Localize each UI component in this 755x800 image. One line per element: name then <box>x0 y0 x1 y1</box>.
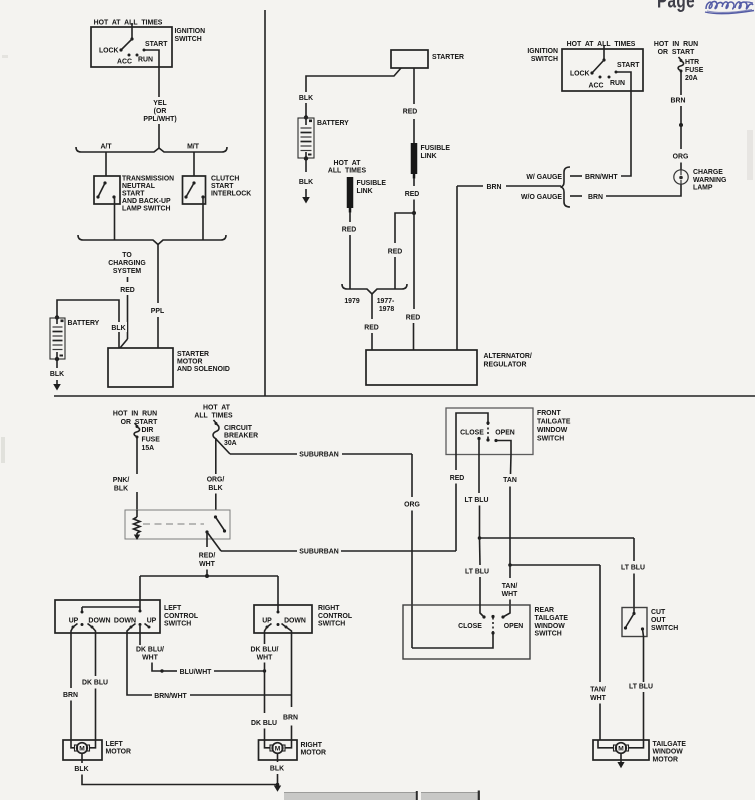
svg-text:TAN/: TAN/ <box>590 687 606 694</box>
wire YEL from start terminal <box>143 50 176 148</box>
svg-text:HTR: HTR <box>685 59 699 66</box>
svg-text:WINDOW: WINDOW <box>537 427 568 434</box>
svg-text:STARTER: STARTER <box>432 54 464 61</box>
wire DK BLU/WHT right switch UP to bus and motor <box>251 627 279 740</box>
svg-text:DK BLU: DK BLU <box>82 680 108 687</box>
faint scan smudges <box>1 55 753 463</box>
starter motor and solenoid box <box>108 348 173 387</box>
svg-text:ACC: ACC <box>589 83 604 90</box>
relay switch contacts <box>205 515 226 533</box>
clutch start interlock switch <box>183 176 206 204</box>
wire RED/WHT relay output to control switches <box>199 532 216 576</box>
label TRANSMISSION NEUTRAL START AND BACK-UP LAMP SWITCH <box>122 176 174 213</box>
wire PPL to starter solenoid <box>151 245 164 349</box>
fusible link F2 <box>350 177 386 213</box>
right control switch <box>254 605 312 633</box>
svg-text:SUBURBAN: SUBURBAN <box>299 452 338 459</box>
svg-text:WHT: WHT <box>502 591 518 598</box>
svg-text:DK BLU/: DK BLU/ <box>251 647 279 654</box>
wire RED bracket stem to alternator <box>364 294 379 350</box>
svg-text:SWITCH: SWITCH <box>175 36 202 43</box>
tailgate window motor M3 <box>593 740 649 760</box>
label CUT OUT SWITCH <box>651 609 678 632</box>
svg-text:MOTOR: MOTOR <box>177 359 203 366</box>
ground (tailgate motor) <box>617 754 624 769</box>
label TAILGATE WINDOW MOTOR <box>653 741 687 764</box>
wire RED lower suburban to front switch <box>450 455 465 552</box>
svg-text:BLK: BLK <box>111 325 125 332</box>
svg-text:ORG: ORG <box>673 154 689 161</box>
wire RED main to alternator <box>406 213 421 350</box>
svg-text:1977-: 1977- <box>377 298 395 305</box>
ignition switch S1 (left) <box>91 27 172 67</box>
right motor M2 <box>259 740 298 760</box>
fuse HTR 20A <box>678 57 704 82</box>
svg-text:OPEN: OPEN <box>495 430 515 437</box>
svg-text:HOT AT ALL TIMES: HOT AT ALL TIMES <box>94 20 163 27</box>
label IGNITION SWITCH (right) <box>527 48 558 63</box>
node HOT AT ALL TIMES (fusible link feed) <box>328 160 367 175</box>
wire BLK left motor ground <box>74 754 277 785</box>
wire TAN front switch open <box>503 455 517 567</box>
svg-text:RED: RED <box>405 191 420 198</box>
svg-text:BRN/WHT: BRN/WHT <box>154 693 187 700</box>
svg-text:FRONT: FRONT <box>537 410 562 417</box>
wire from transmission switch down <box>114 197 116 240</box>
node HOT AT ALL TIMES (right ignition feed) <box>567 41 636 49</box>
svg-text:LT BLU: LT BLU <box>465 569 489 576</box>
node HOT AT ALL TIMES (circuit breaker feed) <box>194 405 233 420</box>
wire TAN/WHT to rear switch open <box>501 565 518 619</box>
svg-text:W/O GAUGE: W/O GAUGE <box>521 194 562 201</box>
node A/T M/T split bracket <box>76 144 227 153</box>
wire distribution to both control switches <box>140 574 278 612</box>
svg-text:REAR: REAR <box>535 607 555 614</box>
svg-text:YEL: YEL <box>153 100 166 107</box>
node HOT AT ALL TIMES (left ignition feed) <box>94 20 163 28</box>
wire BLK right motor ground <box>270 754 284 785</box>
svg-text:WINDOW: WINDOW <box>653 749 684 756</box>
svg-text:SWITCH: SWITCH <box>537 436 564 443</box>
wire RED to charging system <box>120 287 135 348</box>
svg-text:CHARGE: CHARGE <box>693 169 723 176</box>
svg-text:BLK: BLK <box>50 371 64 378</box>
svg-text:AND SOLENOID: AND SOLENOID <box>177 366 230 373</box>
svg-text:BLU/WHT: BLU/WHT <box>180 669 213 676</box>
svg-text:M: M <box>275 746 281 753</box>
svg-text:START: START <box>145 41 168 48</box>
svg-text:LT BLU: LT BLU <box>629 684 653 691</box>
svg-text:15A: 15A <box>142 445 155 452</box>
svg-text:A/T: A/T <box>100 144 112 151</box>
wire BLK starter to battery <box>296 68 401 117</box>
svg-text:OPEN: OPEN <box>504 623 524 630</box>
circuit breaker 30A <box>213 420 258 447</box>
svg-text:SWITCH: SWITCH <box>164 621 191 628</box>
label LEFT MOTOR <box>106 741 132 756</box>
ground (left battery) <box>53 384 61 391</box>
wire BRN left switch UP to left motor <box>63 627 78 740</box>
svg-text:PNK/: PNK/ <box>113 477 130 484</box>
svg-text:DIR: DIR <box>142 427 154 434</box>
bottom UI gray bar fragments <box>284 791 479 800</box>
svg-text:BREAKER: BREAKER <box>224 433 258 440</box>
wire ORG upper suburban to rear switch feed <box>404 454 420 648</box>
charge warning lamp L1 <box>674 170 688 184</box>
svg-text:RED/: RED/ <box>199 553 216 560</box>
ground (motors common) <box>274 783 281 792</box>
svg-text:W/ GAUGE: W/ GAUGE <box>526 174 562 181</box>
svg-text:NEUTRAL: NEUTRAL <box>122 183 155 190</box>
svg-text:OR START: OR START <box>121 419 158 426</box>
svg-text:LAMP SWITCH: LAMP SWITCH <box>122 206 171 213</box>
svg-text:ACC: ACC <box>117 59 132 66</box>
label RIGHT MOTOR <box>301 742 327 757</box>
wire BLK battery positive to starter <box>57 300 127 348</box>
svg-text:HOT AT: HOT AT <box>334 160 362 167</box>
svg-text:INTERLOCK: INTERLOCK <box>211 191 251 198</box>
svg-text:IGNITION: IGNITION <box>175 28 206 35</box>
svg-text:FUSIBLE: FUSIBLE <box>421 145 451 152</box>
svg-text:TAILGATE: TAILGATE <box>535 615 569 622</box>
wire BRN right switch DOWN to right motor <box>283 627 298 740</box>
front tailgate window switch <box>446 408 533 455</box>
wire TAN/WHT junction to tailgate motor <box>510 565 607 740</box>
svg-text:MOTOR: MOTOR <box>301 750 327 757</box>
svg-text:DK BLU: DK BLU <box>251 720 277 727</box>
divider horizontal line between top and bottom diagrams <box>54 395 755 397</box>
svg-text:SWITCH: SWITCH <box>651 625 678 632</box>
wire SUBURBAN lower (relay output) <box>207 532 456 556</box>
svg-text:RED: RED <box>120 287 135 294</box>
svg-text:LINK: LINK <box>357 188 373 195</box>
wire BRN alternator to gauge brace <box>457 181 561 350</box>
svg-text:DOWN: DOWN <box>284 618 306 625</box>
svg-text:RIGHT: RIGHT <box>301 742 323 749</box>
svg-text:ALL TIMES: ALL TIMES <box>194 413 233 420</box>
svg-text:WHT: WHT <box>590 695 606 702</box>
svg-text:BLK: BLK <box>299 179 313 186</box>
svg-text:ORG: ORG <box>404 502 420 509</box>
svg-text:M/T: M/T <box>187 144 200 151</box>
wire PNK/BLK fuse to relay coil <box>113 437 147 510</box>
svg-text:SWITCH: SWITCH <box>535 631 562 638</box>
svg-text:FUSE: FUSE <box>685 67 704 74</box>
svg-text:BLK: BLK <box>208 485 222 492</box>
wire A/T branch <box>105 152 107 176</box>
svg-text:BLK: BLK <box>299 95 313 102</box>
svg-text:M: M <box>618 746 624 753</box>
svg-text:MOTOR: MOTOR <box>106 749 132 756</box>
svg-text:CHARGING: CHARGING <box>108 260 146 267</box>
wire LT BLU rear switch close <box>465 538 489 617</box>
divider vertical line between sections <box>264 10 266 396</box>
svg-text:LT BLU: LT BLU <box>621 565 645 572</box>
wire M/T branch <box>193 152 195 176</box>
label CHARGE WARNING LAMP <box>693 169 726 192</box>
svg-text:ORG/: ORG/ <box>207 477 225 484</box>
label FRONT TAILGATE WINDOW SWITCH <box>537 410 571 443</box>
svg-text:20A: 20A <box>685 75 698 82</box>
svg-text:RED: RED <box>364 325 379 332</box>
svg-text:HOT AT: HOT AT <box>203 405 231 412</box>
svg-text:BRN/WHT: BRN/WHT <box>585 174 618 181</box>
wire ORG junction to charge lamp <box>673 125 689 170</box>
svg-text:TRANSMISSION: TRANSMISSION <box>122 176 174 183</box>
svg-text:DOWN: DOWN <box>88 618 110 625</box>
svg-text:BRN: BRN <box>487 184 502 191</box>
svg-text:1979: 1979 <box>344 298 359 305</box>
wire DK BLU left switch DOWN to left motor <box>82 627 108 740</box>
svg-text:AND BACK-UP: AND BACK-UP <box>122 198 171 205</box>
svg-text:SUBURBAN: SUBURBAN <box>299 549 338 556</box>
svg-text:CLOSE: CLOSE <box>460 430 484 437</box>
wire RED starter feed <box>403 68 418 143</box>
label STARTER MOTOR AND SOLENOID <box>177 351 230 373</box>
svg-text:CLUTCH: CLUTCH <box>211 176 239 183</box>
wire BLK battery ground <box>50 359 64 384</box>
svg-text:BLK: BLK <box>270 766 284 773</box>
svg-text:LOCK: LOCK <box>99 48 119 55</box>
label IGNITION SWITCH (left) <box>175 28 206 43</box>
svg-text:UP: UP <box>147 618 157 625</box>
svg-text:CONTROL: CONTROL <box>164 613 198 620</box>
svg-text:BLK: BLK <box>114 486 128 493</box>
wire from clutch switch down <box>202 197 204 240</box>
svg-text:HOT AT ALL TIMES: HOT AT ALL TIMES <box>567 41 636 48</box>
svg-text:M: M <box>79 746 85 753</box>
handwritten blue page number scribble <box>705 1 754 13</box>
label LEFT CONTROL SWITCH <box>164 605 198 628</box>
rear tailgate window switch <box>403 605 530 659</box>
svg-text:DK BLU/: DK BLU/ <box>136 647 164 654</box>
svg-text:MOTOR: MOTOR <box>653 757 679 764</box>
svg-text:SWITCH: SWITCH <box>531 56 558 63</box>
svg-text:SYSTEM: SYSTEM <box>113 268 142 275</box>
svg-text:STARTER: STARTER <box>177 351 209 358</box>
label CLUTCH START INTERLOCK <box>211 176 251 198</box>
fuse DIR 15A <box>134 423 160 452</box>
svg-text:OUT: OUT <box>651 617 666 624</box>
left control switch <box>55 600 160 633</box>
relay coil <box>134 510 141 535</box>
svg-text:WHT: WHT <box>257 655 273 662</box>
svg-text:START: START <box>617 62 640 69</box>
wire LT BLU front switch close <box>465 439 489 540</box>
svg-text:HOT IN RUN: HOT IN RUN <box>113 411 157 418</box>
alternator/regulator box <box>366 350 477 385</box>
ground (relay coil) <box>134 535 140 541</box>
node junction on lamp feed <box>679 123 683 127</box>
svg-text:TAN/: TAN/ <box>502 583 518 590</box>
wire BRN/WHT left switch DOWN2 to right motor <box>127 627 292 700</box>
ignition switch S2 (right) <box>562 49 643 91</box>
wire BRN w/o gauge to charge lamp <box>570 184 681 201</box>
svg-text:RED: RED <box>388 249 403 256</box>
node TO CHARGING SYSTEM reference <box>108 252 146 282</box>
svg-text:TAILGATE: TAILGATE <box>537 419 571 426</box>
node W/ GAUGE W/O GAUGE brace <box>521 167 570 207</box>
svg-text:(OR: (OR <box>154 108 167 115</box>
node HOT IN RUN OR START (htr fuse feed) <box>654 41 698 56</box>
svg-text:START: START <box>122 191 145 198</box>
svg-text:RED: RED <box>406 315 421 322</box>
starter box (top middle) <box>391 50 428 68</box>
wire RED 1977-78 branch <box>388 213 414 289</box>
svg-text:TAN: TAN <box>503 477 517 484</box>
svg-text:BRN: BRN <box>671 98 686 105</box>
wire BLK battery2 ground <box>299 159 313 197</box>
label REAR TAILGATE WINDOW SWITCH <box>535 607 569 638</box>
svg-text:TO: TO <box>122 252 132 259</box>
svg-text:BRN: BRN <box>283 715 298 722</box>
svg-text:ALL TIMES: ALL TIMES <box>328 168 367 175</box>
wire BLU/WHT bus <box>162 669 266 676</box>
wire BRN fuse to junction <box>671 71 686 125</box>
svg-text:CONTROL: CONTROL <box>318 613 352 620</box>
node HOT IN RUN OR START (dir fuse feed) <box>113 411 158 427</box>
svg-text:IGNITION: IGNITION <box>527 48 558 55</box>
wire ORG/BLK breaker to relay switch <box>207 438 225 510</box>
svg-text:CUT: CUT <box>651 609 666 616</box>
svg-text:Page: Page <box>657 0 695 13</box>
svg-text:BRN: BRN <box>63 692 78 699</box>
svg-text:LOCK: LOCK <box>570 71 590 78</box>
cut out switch <box>622 608 647 637</box>
svg-text:RIGHT: RIGHT <box>318 605 340 612</box>
svg-text:REGULATOR: REGULATOR <box>484 362 527 369</box>
battery B2 (middle) <box>298 115 314 160</box>
svg-text:FUSIBLE: FUSIBLE <box>357 180 387 187</box>
svg-text:LEFT: LEFT <box>164 605 182 612</box>
wire RED below fusible link F2 <box>342 212 357 289</box>
svg-text:BATTERY: BATTERY <box>68 320 100 327</box>
node year split bracket 1979 / 1977-1978 <box>342 284 407 313</box>
node merge bracket below switches <box>78 235 226 245</box>
svg-text:RUN: RUN <box>138 57 153 64</box>
label RIGHT CONTROL SWITCH <box>318 605 352 628</box>
wire BRN/WHT from start terminal to gauge brace <box>570 72 631 181</box>
svg-text:TAILGATE: TAILGATE <box>653 741 687 748</box>
svg-text:RED: RED <box>342 227 357 234</box>
svg-text:PPL: PPL <box>151 308 164 315</box>
wire DK BLU/WHT left switch to BLU/WHT bus <box>136 626 164 673</box>
svg-text:RUN: RUN <box>610 80 625 87</box>
svg-text:BATTERY: BATTERY <box>317 120 349 127</box>
svg-text:ALTERNATOR/: ALTERNATOR/ <box>484 353 532 360</box>
fusible link F1 <box>414 143 450 179</box>
ground (middle battery) <box>302 197 310 204</box>
svg-text:WARNING: WARNING <box>693 177 726 184</box>
svg-text:1978: 1978 <box>379 306 394 313</box>
svg-text:PPL/WHT): PPL/WHT) <box>143 116 176 123</box>
svg-text:SWITCH: SWITCH <box>318 621 345 628</box>
svg-text:RED: RED <box>450 475 465 482</box>
wire LT BLU cut out switch to tailgate motor <box>629 629 653 740</box>
svg-text:DOWN: DOWN <box>114 618 136 625</box>
svg-text:BLK: BLK <box>74 766 88 773</box>
label ALTERNATOR/REGULATOR <box>484 353 532 369</box>
svg-text:WHT: WHT <box>142 655 158 662</box>
node junction RED <box>412 211 416 215</box>
wire SUBURBAN upper feed <box>215 438 412 459</box>
svg-text:RED: RED <box>403 109 418 116</box>
svg-text:LAMP: LAMP <box>693 185 713 192</box>
wire RED below fusible link F1 <box>405 178 420 213</box>
svg-text:OR START: OR START <box>658 49 695 56</box>
svg-text:WHT: WHT <box>199 561 215 568</box>
svg-text:CIRCUIT: CIRCUIT <box>224 425 253 432</box>
left motor M1 <box>63 740 102 760</box>
svg-text:START: START <box>211 183 234 190</box>
wire LT BLU to cut out switch <box>480 538 646 608</box>
relay K1 (tailgate window relay) <box>125 510 230 539</box>
svg-text:30A: 30A <box>224 440 237 447</box>
svg-text:LEFT: LEFT <box>106 741 124 748</box>
svg-text:HOT IN RUN: HOT IN RUN <box>654 41 698 48</box>
svg-text:CLOSE: CLOSE <box>458 623 482 630</box>
svg-text:LINK: LINK <box>421 153 437 160</box>
svg-text:BRN: BRN <box>588 194 603 201</box>
svg-text:FUSE: FUSE <box>142 437 161 444</box>
svg-text:LT BLU: LT BLU <box>465 497 489 504</box>
transmission neutral start switch <box>94 176 120 204</box>
svg-text:WINDOW: WINDOW <box>535 623 566 630</box>
battery B1 (left) <box>50 315 65 361</box>
